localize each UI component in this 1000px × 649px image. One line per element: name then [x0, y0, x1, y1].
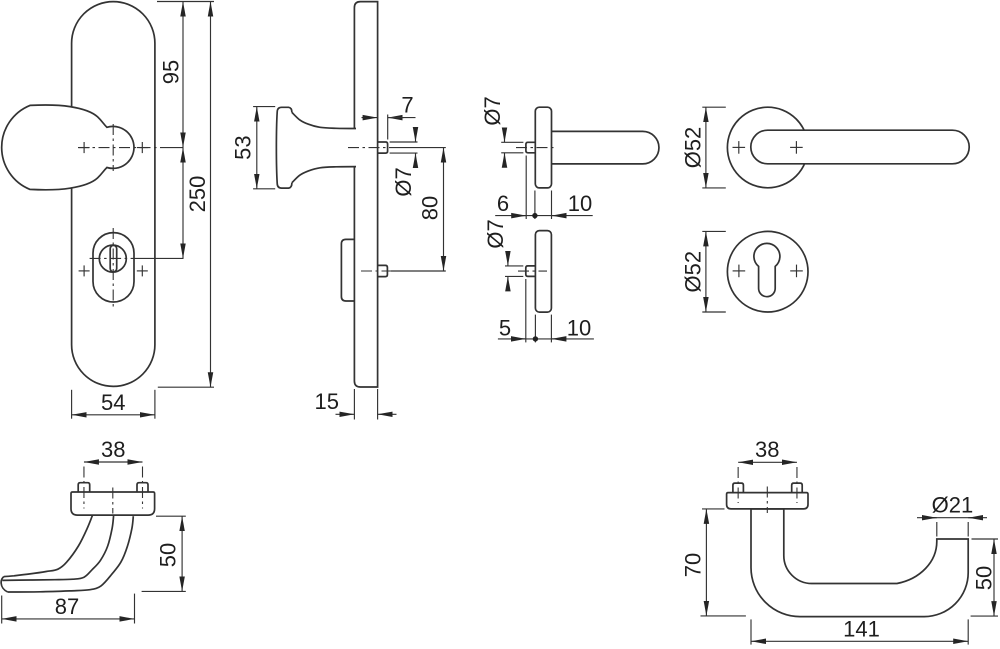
cylinder keyway slot: [110, 245, 117, 271]
svg-text:10: 10: [567, 316, 591, 341]
dimension 5 and 10: [498, 279, 594, 342]
svg-text:Ø52: Ø52: [681, 251, 706, 293]
centerline middle: [112, 488, 114, 514]
centerline right stub: [142, 467, 144, 509]
svg-text:10: 10: [568, 191, 592, 216]
svg-text:Ø52: Ø52: [681, 127, 706, 169]
dimension diameter 7: [480, 96, 523, 166]
cylinder centerline vertical: [112, 228, 114, 308]
screw mark left: [733, 141, 746, 154]
cylinder stub: [526, 266, 536, 277]
bottom extension line: [158, 386, 214, 388]
handle U shape: [751, 509, 968, 617]
screw mark bottom-right: [137, 265, 148, 276]
svg-text:141: 141: [843, 617, 880, 642]
screw mark right: [790, 265, 803, 278]
PZ keyhole: [754, 243, 780, 296]
dimension 250: [185, 2, 211, 388]
dimension 87: [2, 594, 135, 624]
cylinder centerline: [361, 270, 446, 272]
svg-text:6: 6: [497, 191, 509, 216]
centerline left stub: [83, 467, 85, 509]
cylinder cover side: [341, 239, 354, 301]
screw stub left: [78, 483, 90, 492]
svg-text:Ø7: Ø7: [480, 96, 505, 125]
lever bar side: [552, 131, 659, 164]
svg-text:Ø21: Ø21: [932, 493, 974, 518]
rose circle: [727, 107, 808, 188]
dimension diameter 7 spindle: [390, 128, 418, 197]
spindle stub side: [378, 142, 388, 153]
centerline: [518, 270, 547, 272]
rosette side: [535, 107, 551, 188]
svg-text:95: 95: [159, 60, 184, 84]
dimension 70: [681, 509, 746, 616]
dimension diameter 52: [681, 107, 726, 188]
centerline right stub: [796, 467, 798, 503]
screw mark left: [733, 265, 746, 278]
plate side: [354, 2, 377, 387]
centerline middle: [766, 487, 768, 514]
dimension diameter 21: [917, 493, 987, 537]
dimension diameter 7: [483, 219, 523, 289]
svg-text:Ø7: Ø7: [483, 219, 508, 248]
base plate front: [727, 493, 808, 509]
svg-text:87: 87: [55, 594, 79, 619]
spindle centerline: [348, 147, 446, 149]
cylinder hole oval: [93, 233, 134, 302]
screw stub right: [792, 483, 803, 493]
knob centerline horizontal: [78, 147, 184, 149]
cylinder centerline horizontal: [90, 257, 184, 259]
centerline: [516, 147, 556, 149]
screw stub right: [137, 483, 148, 492]
knob centerline vertical: [112, 124, 114, 171]
dimension 53: [231, 107, 276, 189]
screw mark top-left: [79, 142, 90, 153]
svg-text:70: 70: [681, 553, 706, 577]
svg-text:Ø7: Ø7: [391, 167, 416, 196]
svg-text:53: 53: [231, 135, 256, 159]
svg-text:54: 54: [101, 390, 125, 415]
knob front: [2, 105, 134, 190]
dimension 141: [751, 617, 968, 645]
dimension 80: [418, 148, 444, 271]
handle neck and grip: [1, 516, 133, 592]
plate front: [72, 2, 155, 387]
svg-text:7: 7: [401, 93, 413, 118]
spindle stub: [526, 142, 535, 153]
svg-text:38: 38: [101, 437, 125, 462]
dimension 38: [738, 437, 797, 462]
svg-text:80: 80: [418, 196, 443, 220]
dimension 38: [84, 437, 143, 462]
svg-text:250: 250: [185, 176, 210, 213]
cylinder core circle: [99, 245, 126, 272]
svg-text:50: 50: [972, 566, 997, 590]
dimension 50: [971, 539, 998, 616]
svg-text:38: 38: [755, 437, 779, 462]
svg-text:5: 5: [499, 316, 511, 341]
screw mark right: [790, 141, 803, 154]
screw stub left: [733, 483, 744, 493]
lever front: [751, 130, 969, 164]
centerline left stub: [737, 467, 739, 503]
rose circle: [727, 231, 808, 312]
svg-text:50: 50: [156, 543, 181, 567]
knob side (cap and stem): [276, 107, 356, 188]
screw mark top-right: [137, 142, 148, 153]
dimension 7: [362, 93, 416, 140]
screw mark bottom-left: [79, 265, 90, 276]
dimension 50: [142, 516, 186, 591]
base plate top view: [71, 492, 155, 515]
rosette side: [535, 231, 551, 313]
cylinder stub side: [378, 265, 388, 276]
dimension 15: [314, 389, 396, 420]
svg-text:15: 15: [314, 389, 338, 414]
dimension 95: [159, 2, 184, 148]
dimension knob-to-cylinder (unlabeled): [182, 148, 184, 259]
top extension line: [157, 1, 214, 3]
dimension diameter 52: [681, 231, 726, 312]
dimension 6 and 10: [495, 156, 593, 220]
dimension 54: [72, 390, 155, 419]
